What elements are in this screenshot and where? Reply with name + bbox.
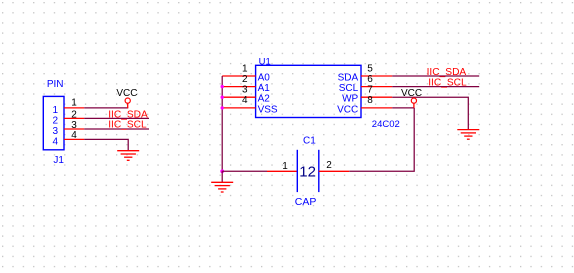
svg-text:CAP: CAP (295, 196, 317, 208)
wire U1 WP pin to ground (392, 97, 468, 129)
svg-text:C1: C1 (303, 136, 316, 147)
junction at U1 pin 3 (221, 96, 224, 99)
svg-text:8: 8 (367, 95, 373, 106)
IC U1 pin 7 (361, 96, 392, 98)
svg-text:2: 2 (242, 74, 248, 85)
svg-text:VCC: VCC (116, 88, 137, 99)
junction at U1 pin 2 (221, 85, 224, 88)
svg-text:5: 5 (367, 63, 373, 74)
svg-text:3: 3 (52, 126, 58, 137)
capacitor C1 right plate (318, 150, 320, 192)
svg-text:A1: A1 (258, 83, 271, 94)
svg-text:2: 2 (326, 160, 332, 171)
capacitor C1 pin 1 (267, 170, 297, 172)
svg-text:4: 4 (71, 130, 77, 141)
wire ground stem below junction (221, 171, 223, 182)
junction at ground rail / C1 wire (220, 169, 224, 173)
wire net IIC_SCL (left) (84, 128, 149, 130)
svg-text:7: 7 (367, 85, 373, 96)
junction at U1 pin 4 (221, 106, 224, 109)
svg-text:1: 1 (52, 105, 58, 116)
svg-text:A0: A0 (258, 73, 271, 84)
svg-text:IIC_SCL: IIC_SCL (428, 78, 467, 89)
wire VCC rail down to C1 pin 2 (349, 108, 414, 171)
svg-text:4: 4 (52, 137, 58, 148)
svg-text:12: 12 (299, 163, 316, 180)
ground symbol GND1 (below J1) (117, 151, 139, 161)
power port VCC (left) stem (127, 103, 129, 108)
IC U1 pin 6 (361, 86, 392, 88)
svg-text:IIC_SCL: IIC_SCL (108, 120, 147, 131)
IC U1 pin 3 (222, 96, 255, 98)
IC U1 pin 1 (222, 75, 255, 77)
capacitor C1 left plate (296, 150, 298, 192)
svg-text:4: 4 (242, 95, 248, 106)
power port VCC (right) stem (413, 103, 415, 108)
svg-text:VSS: VSS (258, 104, 278, 115)
svg-text:WP: WP (342, 94, 358, 105)
wire net IIC_SDA (right) (392, 75, 479, 77)
svg-text:2: 2 (52, 116, 58, 127)
svg-text:A2: A2 (258, 94, 271, 105)
svg-text:1: 1 (71, 98, 77, 109)
connector J1 pin 2 (64, 117, 84, 119)
svg-text:PIN: PIN (47, 79, 64, 90)
wire left rail (U1 address pins to ground) (221, 76, 223, 171)
connector J1 pin 3 (64, 128, 84, 130)
svg-text:1: 1 (242, 63, 248, 74)
svg-text:IIC_SDA: IIC_SDA (427, 67, 467, 78)
svg-text:VCC: VCC (337, 104, 358, 115)
wire net IIC_SDA (left) (84, 117, 149, 119)
wire J1 pin1 to VCC (84, 107, 128, 109)
ground symbol GND2 (right, WP) (457, 130, 479, 140)
svg-text:J1: J1 (53, 155, 64, 166)
capacitor C1 pin 2 (319, 170, 350, 172)
wire J1 pin4 to ground (84, 139, 128, 150)
wire net IIC_SCL (right) (392, 86, 479, 88)
ground symbol GND3 (below C1 rail) (211, 182, 233, 192)
svg-text:6: 6 (367, 74, 373, 85)
IC U1 pin 2 (222, 86, 255, 88)
IC U1 body (256, 65, 361, 117)
power port VCC (left) circle (125, 98, 130, 103)
svg-text:1: 1 (282, 161, 288, 172)
IC U1 pin 4 (222, 107, 255, 109)
svg-text:24C02: 24C02 (372, 119, 400, 130)
connector J1 body (43, 96, 64, 149)
wire U1 VCC pin to rail corner (392, 107, 414, 109)
IC U1 pin 5 (361, 75, 392, 77)
svg-text:U1: U1 (259, 56, 271, 67)
svg-text:SCL: SCL (339, 83, 359, 94)
svg-text:3: 3 (242, 85, 248, 96)
connector J1 pin 1 (64, 107, 84, 109)
svg-text:VCC: VCC (401, 88, 422, 99)
power port VCC (right) circle (411, 98, 416, 103)
connector J1 pin 4 (64, 138, 84, 140)
wire ground rail to C1 pin 1 (222, 170, 267, 172)
svg-text:SDA: SDA (338, 73, 359, 84)
IC U1 pin 8 (361, 107, 392, 109)
